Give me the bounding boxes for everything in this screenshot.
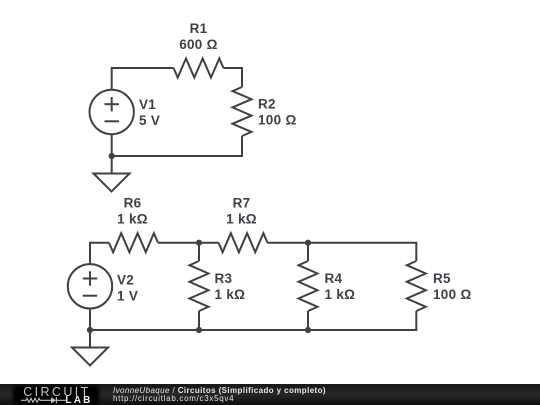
- svg-text:5 V: 5 V: [139, 113, 160, 128]
- svg-text:1 kΩ: 1 kΩ: [325, 287, 356, 302]
- svg-text:R5: R5: [433, 271, 451, 286]
- svg-text:1 kΩ: 1 kΩ: [226, 212, 257, 227]
- svg-text:R7: R7: [233, 196, 251, 211]
- svg-text:R6: R6: [124, 196, 142, 211]
- svg-text:R1: R1: [190, 21, 208, 36]
- svg-text:1 kΩ: 1 kΩ: [215, 287, 246, 302]
- svg-text:V2: V2: [117, 273, 134, 288]
- svg-text:1 kΩ: 1 kΩ: [117, 212, 148, 227]
- svg-text:R2: R2: [258, 97, 276, 112]
- svg-text:LAB: LAB: [65, 395, 92, 405]
- svg-text:1 V: 1 V: [117, 289, 138, 304]
- svg-text:R4: R4: [325, 271, 343, 286]
- svg-text:V1: V1: [139, 97, 156, 112]
- svg-text:100 Ω: 100 Ω: [433, 287, 472, 302]
- svg-text:R3: R3: [215, 271, 233, 286]
- svg-text:600 Ω: 600 Ω: [179, 37, 218, 52]
- svg-text:100 Ω: 100 Ω: [258, 113, 297, 128]
